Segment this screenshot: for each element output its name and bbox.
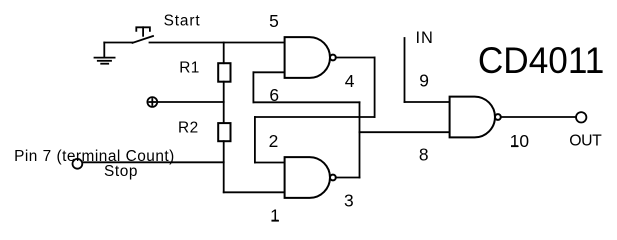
svg-text:4: 4 bbox=[345, 71, 355, 91]
wire into gate A pin 6 bbox=[253, 71, 284, 73]
NAND gate U1C bbox=[450, 97, 501, 138]
svg-text:CD4011: CD4011 bbox=[478, 40, 605, 81]
wire supply to node B bbox=[157, 101, 224, 103]
wire pin 4 feedback horizontal bbox=[255, 116, 375, 118]
wire ground to switch bbox=[104, 42, 132, 44]
wire corner to gate B pin 1 bbox=[224, 191, 285, 193]
NAND gate U1A bbox=[285, 37, 336, 78]
wire gate C output pin 10 bbox=[501, 116, 576, 118]
terminal OUT bbox=[576, 112, 586, 122]
wire gate B output pin 3 bbox=[336, 177, 360, 179]
svg-text:3: 3 bbox=[344, 190, 354, 210]
svg-text:R2: R2 bbox=[178, 120, 199, 137]
wire into gate B pin 2 bbox=[255, 162, 285, 164]
wire switch to node A bbox=[150, 42, 285, 44]
svg-text:10: 10 bbox=[510, 131, 529, 151]
svg-text:9: 9 bbox=[419, 71, 429, 91]
wire feedback vertical up bbox=[252, 72, 254, 102]
wire latch output to gate C pin 8 bbox=[360, 131, 450, 133]
supply terminal + bbox=[147, 97, 157, 107]
wire feedback horizontal to pin 6 bbox=[253, 101, 359, 103]
switch S1 (Start pushbutton) bbox=[133, 27, 154, 43]
svg-text:2: 2 bbox=[269, 131, 279, 151]
resistor R1 bbox=[218, 63, 230, 81]
svg-text:Start: Start bbox=[164, 13, 201, 30]
svg-text:1: 1 bbox=[270, 206, 280, 226]
svg-text:Stop: Stop bbox=[104, 163, 138, 180]
wire IN to gate C pin 9 bbox=[405, 101, 450, 103]
terminal Pin 7 bbox=[73, 159, 83, 169]
wire pin7 to node C bbox=[82, 161, 223, 163]
NAND gate U1B bbox=[285, 157, 336, 198]
wire R2 down to corner bbox=[223, 141, 225, 192]
svg-text:IN: IN bbox=[416, 29, 434, 47]
svg-text:8: 8 bbox=[419, 145, 429, 165]
resistor R2 bbox=[218, 123, 230, 141]
ground bbox=[95, 43, 115, 64]
wire node A down to R1 bbox=[223, 43, 225, 64]
wire gate A output pin 4 bbox=[336, 57, 375, 59]
svg-text:OUT: OUT bbox=[569, 133, 602, 150]
svg-text:R1: R1 bbox=[179, 60, 200, 77]
svg-text:5: 5 bbox=[269, 11, 279, 31]
wire IN vertical bbox=[404, 38, 406, 102]
wire R1 to R2 bbox=[223, 82, 225, 123]
wire pin 4 vertical down bbox=[374, 58, 376, 118]
wire pin 3 vertical up bbox=[359, 102, 361, 177]
wire feedback vertical to pin 2 bbox=[254, 117, 256, 163]
